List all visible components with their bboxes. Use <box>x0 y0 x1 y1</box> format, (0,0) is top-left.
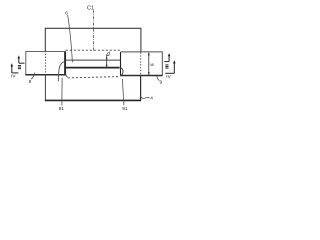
top plate <box>45 28 141 52</box>
left terminal box bottom edge <box>25 74 66 76</box>
right terminal box <box>121 52 162 75</box>
left flange bar <box>64 52 66 76</box>
section arrow IV right <box>173 63 175 73</box>
svg-text:C1: C1 <box>87 5 94 11</box>
section arrow III right <box>164 61 169 63</box>
right flange bar <box>120 52 122 76</box>
svg-text:IV: IV <box>11 73 16 78</box>
leader 4 <box>141 96 150 98</box>
bottom plate left edge <box>44 76 46 101</box>
centerline C1 dash-dot <box>93 10 95 50</box>
svg-text:91: 91 <box>122 106 128 112</box>
label III right rotated <box>165 64 168 65</box>
winding wire line <box>66 67 120 69</box>
dimension w line <box>148 53 150 75</box>
dimension d line <box>106 54 108 67</box>
leader 9 <box>157 76 159 81</box>
hidden drum bottom dashed <box>68 77 119 78</box>
bottom plate bottom edge <box>45 99 141 101</box>
left wire end curve <box>58 62 64 82</box>
label III left rotated <box>18 65 21 66</box>
dimension d arrow lower <box>106 65 108 68</box>
hidden drum top dashed <box>66 49 121 51</box>
dimension w arrow upper <box>148 52 150 55</box>
left terminal box <box>26 51 66 74</box>
bar foot diagonal <box>66 75 68 77</box>
svg-text:8: 8 <box>29 79 32 85</box>
section arrow III left <box>18 58 20 64</box>
bottom plate right edge <box>140 76 142 101</box>
right terminal box bottom edge <box>120 75 162 77</box>
leader 6 <box>68 15 73 62</box>
right wire end arc <box>120 68 123 76</box>
dimension d arrow upper <box>106 58 108 61</box>
leader 81 <box>61 78 63 106</box>
svg-text:w: w <box>150 63 154 68</box>
svg-text:IV: IV <box>166 74 171 79</box>
section arrow IV left <box>11 66 13 73</box>
svg-text:9: 9 <box>160 80 163 86</box>
hidden edge right dashed <box>140 53 142 76</box>
svg-text:d: d <box>107 52 111 58</box>
hidden edge left dashed <box>45 51 47 75</box>
svg-text:4: 4 <box>150 95 153 101</box>
leader 91 <box>122 79 124 105</box>
winding top line <box>66 59 120 61</box>
dimension w arrow lower <box>148 72 150 75</box>
svg-text:81: 81 <box>59 106 65 112</box>
leader 8 <box>31 73 35 80</box>
